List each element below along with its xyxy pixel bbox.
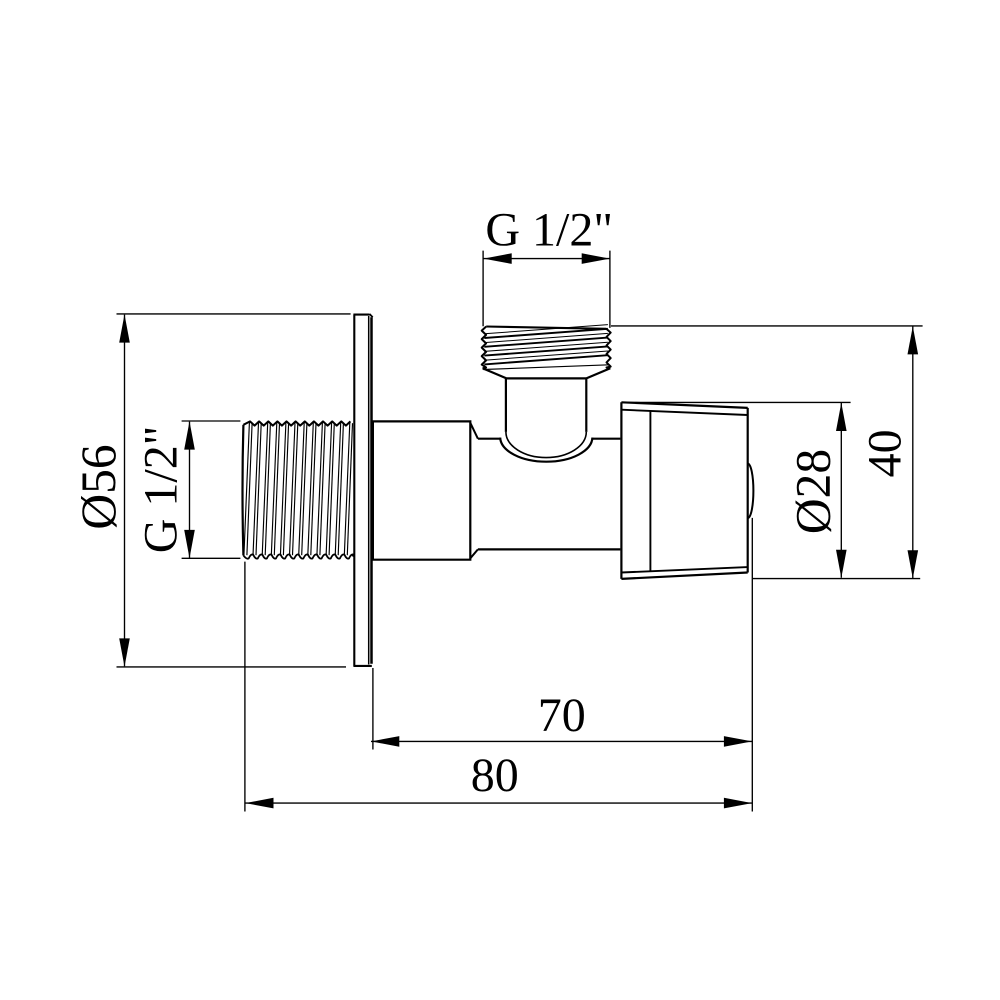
outlet neck right wall xyxy=(585,378,587,432)
dimension G12 left extension lines xyxy=(182,421,241,558)
dimension 80 extension line xyxy=(244,562,246,812)
handle inner top edge xyxy=(621,410,747,415)
flange top-right chamfer xyxy=(370,314,373,317)
dimension 40 extension lines xyxy=(611,326,923,579)
handle left edge xyxy=(620,402,622,579)
dimension 70 line xyxy=(371,736,752,747)
dimension 80 line xyxy=(245,798,752,809)
handle cap divider xyxy=(649,411,651,571)
handle outer bottom edge xyxy=(621,573,747,579)
body neck top edge xyxy=(478,438,621,440)
outlet neck left wall xyxy=(505,378,507,432)
top thread helix lines xyxy=(483,325,609,370)
dimension 40 text xyxy=(859,429,912,477)
dimension D56 extension lines xyxy=(117,314,351,667)
svg-text:40: 40 xyxy=(859,429,912,477)
dimension G12 top line xyxy=(483,253,610,264)
handle tip arc xyxy=(748,464,754,518)
svg-text:70: 70 xyxy=(538,689,586,742)
wall flange plate xyxy=(353,315,371,666)
dimension D56 text xyxy=(71,444,126,529)
top thread chamfer and shoulder xyxy=(483,368,611,378)
dimension 70 extension lines xyxy=(373,518,752,812)
svg-text:80: 80 xyxy=(471,749,519,802)
valve body block xyxy=(373,421,470,559)
svg-text:G 1/2": G 1/2" xyxy=(135,426,188,554)
dimension 40 line xyxy=(908,326,919,578)
left inlet thread outline xyxy=(243,421,354,558)
body neck bottom edge xyxy=(478,548,621,550)
dimension D28 text xyxy=(786,449,841,534)
svg-text:Ø56: Ø56 xyxy=(71,444,126,529)
body bottom chamfer xyxy=(470,549,478,558)
svg-text:G 1/2": G 1/2" xyxy=(485,203,613,256)
outlet dome inner arc xyxy=(506,432,586,458)
dimension G12 top text xyxy=(485,203,613,256)
handle right edge xyxy=(747,408,749,573)
dimension D28 line xyxy=(836,403,847,578)
dimension G12 left line xyxy=(184,421,195,558)
dimension D56 line xyxy=(119,314,130,666)
body top chamfer xyxy=(470,423,478,439)
handle outer top edge xyxy=(621,402,747,408)
handle inner bottom edge xyxy=(621,567,747,572)
dimension 80 text xyxy=(471,749,519,802)
dimension D28 extension line xyxy=(622,401,851,403)
svg-text:Ø28: Ø28 xyxy=(786,449,841,534)
top outlet thread outline xyxy=(482,327,611,369)
dimension 70 text xyxy=(538,689,586,742)
left thread groove lines xyxy=(244,423,353,556)
dimension G12 top extension lines xyxy=(483,251,610,328)
outlet dome outer arc xyxy=(500,438,592,462)
dimension G12 left text xyxy=(135,426,188,554)
